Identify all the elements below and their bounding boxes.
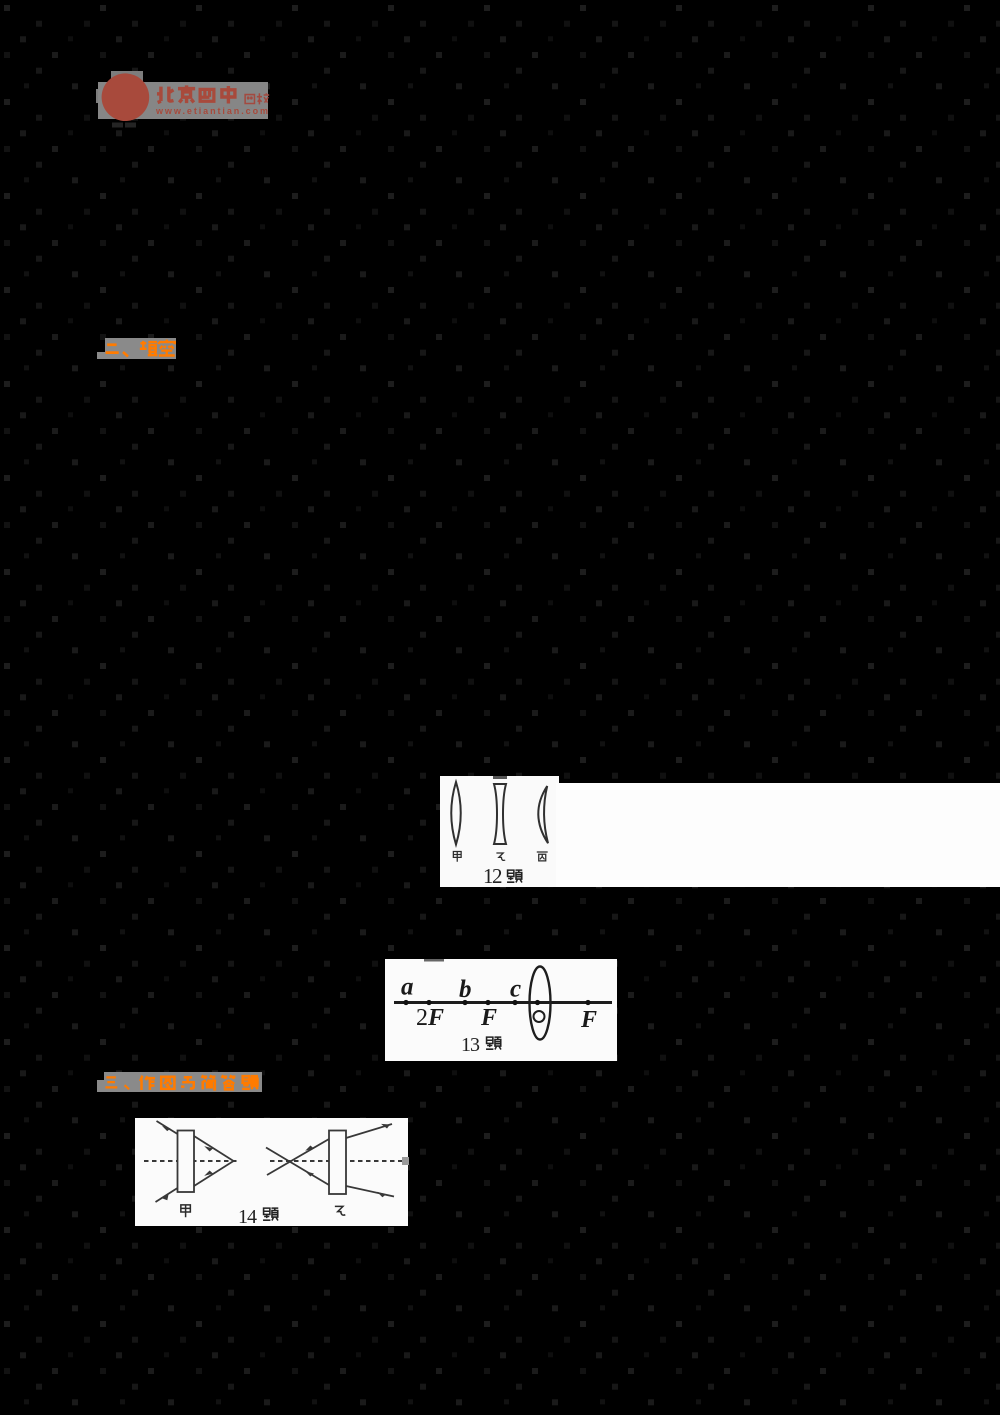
svg-text:13: 13 [461, 1034, 480, 1056]
svg-text:F: F [480, 1005, 497, 1031]
svg-text:14: 14 [238, 1206, 257, 1228]
svg-text:c: c [510, 976, 521, 1003]
svg-text:2F: 2F [416, 1005, 444, 1031]
svg-text:b: b [459, 976, 472, 1003]
svg-text:a: a [401, 974, 414, 1001]
svg-text:F: F [580, 1007, 597, 1033]
svg-text:12: 12 [483, 864, 502, 888]
